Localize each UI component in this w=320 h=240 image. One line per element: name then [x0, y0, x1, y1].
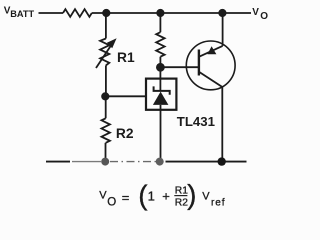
zener cathode bar inside TL431 [154, 86, 170, 94]
node ground dot TL431 [156, 158, 164, 166]
wire node E down to TL431 cathode [159, 67, 161, 91]
svg-text:+: + [162, 189, 170, 204]
wire top rail to VO [92, 12, 251, 14]
ground rail right segment [166, 161, 247, 163]
ground rail left segment [46, 161, 70, 163]
svg-text:V: V [99, 190, 107, 202]
svg-text:O: O [260, 11, 268, 22]
svg-text:R1: R1 [117, 50, 135, 65]
node junction dot B (top of mid resistor) [156, 9, 164, 17]
ground rail grey segment [72, 161, 101, 163]
svg-text:R2: R2 [116, 126, 134, 141]
resistor R2 [102, 118, 110, 143]
node junction dot A (top of R1) [102, 9, 110, 17]
transistor Q1 emitter diagonal [199, 46, 223, 57]
transistor Q1 base bar [198, 50, 200, 76]
svg-text:ref: ref [211, 198, 225, 209]
wire node E to transistor base [160, 66, 199, 68]
wire collector to ground rail [221, 87, 223, 162]
svg-text:BATT: BATT [10, 9, 34, 19]
wire REF to TL431 [105, 95, 145, 97]
arrow of variable resistor R1 [96, 46, 111, 68]
resistor (bias, middle) [156, 32, 164, 57]
wire dot A down to R1 [105, 13, 107, 39]
zener anode triangle inside TL431 [153, 92, 169, 105]
node junction dot C (emitter to rail) [218, 9, 226, 17]
svg-text:=: = [122, 190, 130, 205]
wire TL431 anode to ground rail [160, 105, 162, 162]
wire dot B down to mid resistor [159, 13, 161, 32]
node VO label [252, 7, 268, 22]
wire junction down to R2 [105, 96, 107, 118]
op-amp U1 TL431 box [146, 79, 176, 110]
node ground dot collector [218, 157, 226, 165]
svg-text:O: O [107, 197, 116, 209]
node ground dot R2 [101, 158, 109, 166]
wire R1 to junction [105, 65, 107, 96]
wire R2 to ground rail [105, 143, 107, 162]
svg-text:V: V [252, 7, 259, 18]
transistor Q1 circle [186, 41, 235, 90]
transistor Q1 emitter arrow [207, 46, 216, 54]
svg-text:TL431: TL431 [177, 114, 215, 129]
wire VBATT to series resistor [39, 12, 64, 14]
resistor (series, top) [63, 9, 92, 17]
resistor R1 (variable) [100, 39, 109, 66]
svg-text:V: V [202, 190, 210, 202]
svg-text:1: 1 [148, 189, 155, 204]
ground rail dash-dot segment [110, 161, 157, 163]
node VBATT label [4, 6, 35, 19]
node junction dot E (base / cathode) [156, 63, 165, 72]
wire emitter to top rail [222, 13, 224, 46]
node junction dot D (R1/R2/REF) [101, 92, 109, 100]
svg-text:): ) [187, 179, 196, 210]
wire mid resistor to node E [159, 57, 161, 68]
formula VO = (1 + R1/R2) Vref [99, 179, 225, 210]
transistor Q1 collector diagonal [199, 72, 222, 87]
